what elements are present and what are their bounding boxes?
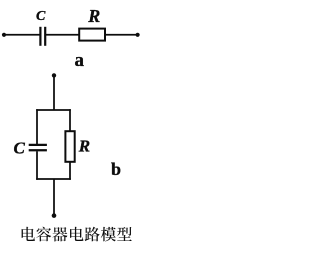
svg-text:R: R — [87, 6, 100, 26]
caption: 电容器电路模型 — [22, 227, 132, 242]
svg-text:R: R — [78, 137, 90, 156]
wire: top terminal feed down (circuit b) — [53, 75, 55, 110]
wire: resistor R to right terminal (circuit a) — [105, 34, 140, 36]
resistor R (circuit a) body — [79, 29, 105, 41]
svg-text:C: C — [36, 9, 46, 24]
svg-text:C: C — [14, 138, 26, 157]
node: bottom terminal dot of circuit b — [52, 213, 57, 218]
capacitor C (circuit a) plates — [40, 27, 45, 46]
wire: right branch upper segment to resistor R (circuit b) — [69, 109, 71, 131]
wire: left branch lower segment from capacitor C (circuit b) — [36, 151, 38, 180]
wire: bottom rail of parallel pair (circuit b) — [36, 178, 71, 180]
node: left terminal dot of circuit a — [2, 33, 6, 37]
wire: top rail of parallel pair (circuit b) — [36, 109, 71, 111]
wire: left terminal to capacitor C (circuit a) — [4, 34, 40, 36]
capacitor C (circuit b) plates — [29, 145, 47, 150]
node: right terminal dot of circuit a — [136, 33, 140, 37]
wire: right branch lower segment from resistor R (circuit b) — [69, 162, 71, 180]
wire: left branch upper segment to capacitor C (circuit b) — [36, 109, 38, 144]
wire: bottom feed down to terminal (circuit b) — [53, 179, 55, 214]
svg-text:a: a — [75, 50, 85, 71]
resistor R (circuit b) body — [65, 131, 74, 162]
node: top terminal dot of circuit b — [52, 73, 56, 77]
svg-text:b: b — [111, 159, 121, 179]
wire: capacitor C to resistor R (circuit a) — [46, 34, 79, 36]
